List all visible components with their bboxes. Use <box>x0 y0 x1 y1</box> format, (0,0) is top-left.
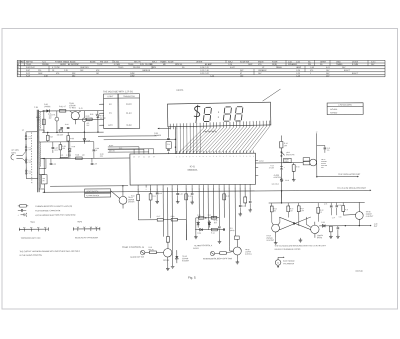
switch box SW-1 section <box>42 175 47 184</box>
svg-text:NPN: NPN <box>152 67 157 69</box>
svg-text:TRANS: TRANS <box>336 63 343 66</box>
svg-text:B4086: B4086 <box>90 61 95 63</box>
svg-text:SIL: SIL <box>308 61 311 63</box>
svg-text:LAMP: LAMP <box>296 66 302 69</box>
resistor R-31 snooze <box>215 251 234 254</box>
svg-text:4.7 1/2W: 4.7 1/2W <box>52 67 60 69</box>
ground <box>191 200 193 202</box>
digit 3 <box>223 107 231 121</box>
svg-text:TR-06: TR-06 <box>321 159 325 161</box>
ground <box>293 177 295 179</box>
transformer T-01 power <box>34 107 42 192</box>
svg-text:TO-92: TO-92 <box>97 64 102 66</box>
svg-text:TRANSISTOR: TRANSISTOR <box>123 95 135 98</box>
wire pin4 drop <box>162 187 164 236</box>
svg-text:(MUS/OFF): (MUS/OFF) <box>286 154 295 156</box>
capacitor C-27 <box>337 226 340 234</box>
diode D-05 <box>319 222 345 228</box>
amplifier legend box <box>327 103 363 115</box>
svg-text:C-08: C-08 <box>95 148 99 150</box>
svg-text:RD7106: RD7106 <box>356 271 363 273</box>
svg-text:220: 220 <box>38 70 41 72</box>
svg-text:LIGHT SWITCH: LIGHT SWITCH <box>86 191 99 193</box>
svg-text:SW-2: SW-2 <box>228 61 233 63</box>
svg-text:L-01: L-01 <box>60 155 63 157</box>
svg-text:R-09: R-09 <box>75 155 79 157</box>
switch snooze circle <box>210 251 214 255</box>
svg-text:AC 120V: AC 120V <box>11 149 19 152</box>
display pins <box>170 120 271 129</box>
wire secondary tap 6 <box>42 173 45 175</box>
svg-text:D-01: D-01 <box>288 61 292 63</box>
diode D-01 rectifier <box>44 104 50 113</box>
svg-text:100: 100 <box>240 75 243 77</box>
resistor R-27 <box>297 203 300 226</box>
AC plug 120V <box>11 149 26 162</box>
svg-text:POWER: POWER <box>154 135 162 137</box>
wire <box>43 184 45 192</box>
svg-text:MN6063A: MN6063A <box>188 169 198 172</box>
svg-text:+: + <box>284 167 285 169</box>
svg-text:D-04: D-04 <box>86 140 90 142</box>
svg-text:C-04: C-04 <box>65 124 69 126</box>
svg-text:470: 470 <box>87 123 90 125</box>
svg-text:ELECT: ELECT <box>344 70 351 72</box>
small box R-10 <box>59 130 62 133</box>
svg-text:SW-3 BUZ: SW-3 BUZ <box>272 184 279 186</box>
wire pin5 drop <box>167 187 169 236</box>
resistor R-12 <box>149 194 156 200</box>
transistor TR-05 <box>229 239 252 260</box>
label bus B1 <box>109 145 123 152</box>
arrow to VCM <box>337 187 371 192</box>
ground <box>167 266 169 268</box>
svg-text:14: 14 <box>22 130 24 132</box>
wire pin11 drop <box>203 187 205 218</box>
svg-text:WZ-090: WZ-090 <box>100 118 106 120</box>
svg-text:4 OHM: 4 OHM <box>114 64 120 66</box>
svg-text:D-03: D-03 <box>100 115 104 117</box>
node <box>43 158 44 159</box>
wire <box>70 141 94 143</box>
ground <box>156 199 158 201</box>
svg-text:ELECT: ELECT <box>352 73 359 75</box>
capacitor C-19 <box>239 205 246 211</box>
svg-text:26: 26 <box>143 156 145 158</box>
svg-text:MUTING: MUTING <box>321 165 328 167</box>
svg-text:AIO-500: AIO-500 <box>330 108 337 111</box>
svg-text:UNLESS OTHERWISE STATED: UNLESS OTHERWISE STATED <box>274 248 301 251</box>
svg-text:2SC458: 2SC458 <box>163 260 169 262</box>
svg-text:ALM OUT: ALM OUT <box>366 215 374 218</box>
svg-text:R-05: R-05 <box>90 114 94 116</box>
callout line <box>263 89 281 101</box>
wire pin16 drop <box>228 187 230 247</box>
node <box>281 190 282 191</box>
capacitor C-16 <box>176 193 183 199</box>
wire <box>60 141 69 143</box>
wire <box>111 191 120 199</box>
svg-text:2SB186: 2SB186 <box>42 64 49 66</box>
svg-text:R-17: R-17 <box>157 216 161 218</box>
capacitor C-08 <box>93 142 100 159</box>
capacitor C-05 <box>50 158 57 165</box>
wire amp top rail <box>269 201 365 204</box>
svg-text:TR-01: TR-01 <box>26 64 31 66</box>
svg-text:AIO-540: AIO-540 <box>330 111 337 114</box>
svg-text:R-22: R-22 <box>211 233 215 235</box>
wire <box>167 242 169 248</box>
svg-text:R-21: R-21 <box>208 215 211 217</box>
svg-text:6: 6 <box>246 121 247 123</box>
svg-text:470: 470 <box>310 70 313 72</box>
svg-text:R-25: R-25 <box>273 208 276 210</box>
svg-text:C-14: C-14 <box>167 144 170 146</box>
svg-text:FIP4C5: FIP4C5 <box>177 90 185 92</box>
wire bus to IC pin 25 <box>108 147 139 149</box>
transistor TR-08 alarm amp <box>306 222 323 240</box>
transistor TR-04 vertical <box>197 220 200 227</box>
svg-text:D-06: D-06 <box>197 233 201 235</box>
svg-text:Fig. 5: Fig. 5 <box>188 276 196 280</box>
wire rail alarm1 <box>196 217 219 219</box>
ground <box>218 239 220 241</box>
switch circle snooze <box>130 250 145 258</box>
digit 4 <box>235 107 243 121</box>
wire <box>99 103 103 105</box>
resistor R-28 <box>317 203 320 222</box>
wire branch <box>317 144 325 146</box>
svg-text:C-19: C-19 <box>242 206 246 208</box>
wire <box>244 203 246 207</box>
wire <box>137 201 139 219</box>
svg-text:DIODE: DIODE <box>352 61 359 63</box>
label values amp <box>273 209 348 219</box>
wire pin6 drop <box>171 187 173 250</box>
svg-text:60Hz IN: 60Hz IN <box>109 150 116 152</box>
svg-text:SW-B: SW-B <box>285 180 289 182</box>
resistor R-22 <box>211 228 217 234</box>
svg-text:C-01: C-01 <box>52 114 56 116</box>
wire <box>185 220 187 240</box>
svg-text:470: 470 <box>37 119 40 121</box>
wire secondary tap 7 <box>42 189 45 192</box>
node <box>44 192 45 193</box>
transistor TR-09 output <box>343 202 373 225</box>
zener diode D-03 <box>96 111 103 133</box>
wire vertical audio <box>316 133 318 176</box>
display DISP-01 fluorescent <box>167 102 270 127</box>
transistor TR-01 regulator <box>69 103 81 124</box>
svg-text:C-20: C-20 <box>296 70 300 72</box>
digit 2 <box>203 107 211 121</box>
svg-text:R-06: R-06 <box>70 138 74 140</box>
wire rail alarm2 <box>195 229 225 231</box>
transistor TR-02 driver <box>119 186 135 209</box>
svg-text:SPEAKER: SPEAKER <box>288 63 298 66</box>
wire rail drive <box>50 185 128 187</box>
svg-text:R-28: R-28 <box>320 210 323 212</box>
svg-text:D-02: D-02 <box>296 61 300 63</box>
wire <box>137 218 139 220</box>
resistor R-25 <box>270 203 273 222</box>
switch SW-2 contact <box>281 151 295 156</box>
svg-text:R-29: R-29 <box>345 209 348 211</box>
capacitor C-23 electrolytic <box>269 165 285 169</box>
svg-text:27: 27 <box>138 156 140 158</box>
display to IC wires <box>177 126 270 153</box>
svg-text:PM: PM <box>308 64 311 66</box>
svg-text:28: 28 <box>133 156 135 158</box>
switch SW-1 diagram <box>19 222 48 240</box>
ground <box>239 212 241 214</box>
wire pin20 drop <box>249 187 251 201</box>
svg-text:IC-01: IC-01 <box>190 166 196 168</box>
svg-text:C-25: C-25 <box>338 205 341 207</box>
capacitor C-24 <box>324 203 333 216</box>
svg-text:CARBON RESISTOR 1/4 WATTS ±10: CARBON RESISTOR 1/4 WATTS ±10% (Ω) <box>35 205 72 208</box>
node <box>316 176 317 177</box>
svg-text:AF AMP: AF AMP <box>205 63 213 66</box>
ground <box>299 238 301 240</box>
matrix label boxes <box>85 189 111 197</box>
wire rail L <box>41 157 130 160</box>
svg-text:8.7V: 8.7V <box>108 125 113 127</box>
radio control box <box>284 158 291 163</box>
wire cross coupling <box>279 217 311 230</box>
wire rail B2 <box>74 118 104 120</box>
svg-text:11.4V: 11.4V <box>126 113 132 115</box>
wire hline to C-14 <box>98 135 157 137</box>
switch alarm off <box>280 179 289 182</box>
label D-02 POWER <box>154 133 162 137</box>
mute control boxes <box>303 158 310 165</box>
resistor R-26 <box>287 203 290 218</box>
svg-text:R-11: R-11 <box>131 195 134 197</box>
svg-text:SW-2: SW-2 <box>286 152 290 154</box>
legend electrolytic symbol <box>17 213 76 217</box>
resistor R-09 <box>75 155 82 160</box>
svg-text:12: 12 <box>316 131 318 133</box>
svg-text:150: 150 <box>284 145 287 147</box>
arrow to display <box>158 128 171 130</box>
label C-17 50V <box>214 220 218 224</box>
resistor R-13 <box>166 237 169 243</box>
wire rail mid <box>42 131 103 133</box>
svg-text:C-26: C-26 <box>296 75 300 77</box>
svg-text:1: 1 <box>310 73 311 75</box>
legend resistor symbol <box>18 204 73 208</box>
note switch positions <box>19 250 79 257</box>
svg-text:D-05: D-05 <box>321 222 325 224</box>
svg-text:R-W: R-W <box>140 64 144 66</box>
capacitor C-15 <box>156 193 163 199</box>
wire <box>108 148 134 150</box>
IC top pins <box>133 148 254 158</box>
svg-text:47K: 47K <box>273 210 276 212</box>
node <box>205 217 206 218</box>
svg-text:SW-2: SW-2 <box>77 221 82 223</box>
svg-text:C-01: C-01 <box>48 114 52 116</box>
label R-05 <box>90 114 98 116</box>
resistor R-20 <box>198 217 204 220</box>
svg-text:100: 100 <box>49 116 52 118</box>
svg-text:10.2V: 10.2V <box>126 104 132 106</box>
svg-text:MUSIC/AUTO OFF/BUZZER: MUSIC/AUTO OFF/BUZZER <box>75 236 99 239</box>
wire pin13 drop <box>213 187 215 218</box>
label R-20 values <box>197 215 211 217</box>
svg-text:D-0: D-0 <box>28 136 31 138</box>
svg-text:C-09: C-09 <box>100 154 104 156</box>
svg-text:1N60: 1N60 <box>336 61 341 63</box>
svg-text:TIME/RADIO/AUTO OFF: TIME/RADIO/AUTO OFF <box>21 237 42 240</box>
note voltages measured <box>274 244 326 251</box>
svg-text:R-24: R-24 <box>284 143 288 145</box>
svg-text:ALM B: ALM B <box>193 247 199 250</box>
svg-text:10K: 10K <box>290 210 293 212</box>
svg-text:R-25: R-25 <box>296 166 299 168</box>
svg-text:0.047: 0.047 <box>230 67 235 69</box>
wire <box>281 191 283 203</box>
svg-text:1K: 1K <box>320 212 322 214</box>
dashed shield line <box>31 133 33 184</box>
wire <box>67 132 69 135</box>
svg-text:2SC458: 2SC458 <box>133 67 140 69</box>
ground <box>337 234 339 236</box>
svg-text:R-19: R-19 <box>148 247 152 249</box>
svg-text:C-21 C-22: C-21 C-22 <box>200 73 209 75</box>
node <box>359 225 360 226</box>
svg-text:A FM AM AMPLI: A FM AM AMPLI <box>338 103 352 106</box>
svg-text:220: 220 <box>82 155 85 157</box>
svg-text:680: 680 <box>72 75 75 77</box>
ground <box>195 235 197 237</box>
svg-text:T-01: T-01 <box>42 61 46 63</box>
svg-text:D-0: D-0 <box>28 147 31 149</box>
svg-text:CARBON: CARBON <box>142 69 151 72</box>
svg-text:SLIDE SW: SLIDE SW <box>240 61 249 63</box>
svg-text:C-15: C-15 <box>159 193 163 195</box>
capacitor C-07 <box>52 142 59 153</box>
svg-text:±(V) ALUMINUM ELECTROLYTIC CAP: ±(V) ALUMINUM ELECTROLYTIC CAPACITOR <box>35 214 76 217</box>
svg-text:TR-06: TR-06 <box>128 64 133 66</box>
ground <box>330 234 332 236</box>
resistor R-30 <box>329 226 332 234</box>
svg-text:SW-1: SW-1 <box>30 222 35 224</box>
svg-text:1M: 1M <box>96 73 99 75</box>
svg-text:REF NO: REF NO <box>26 61 34 63</box>
resistor R-04 <box>86 116 93 121</box>
svg-text:ALARM CONTROL A: ALARM CONTROL A <box>194 244 213 247</box>
svg-text:100K: 100K <box>38 73 43 75</box>
wire <box>145 251 149 253</box>
wire pin19 drop <box>244 187 246 197</box>
wire vertical feed <box>280 148 282 203</box>
wire pin15 drop <box>223 187 225 218</box>
parts table <box>17 60 385 77</box>
wire pin2 drop <box>150 188 152 194</box>
label alarm control <box>274 174 282 179</box>
wire pin8 drop <box>185 187 187 240</box>
diode D-05b <box>69 142 76 159</box>
ground <box>172 264 174 266</box>
svg-text:1/4W: 1/4W <box>130 75 135 77</box>
svg-text:R-07: R-07 <box>50 136 54 138</box>
wire rail +B <box>42 110 103 112</box>
svg-text:GERM: GERM <box>320 61 326 63</box>
wire long rail to regulator <box>43 190 370 192</box>
svg-text:THE VOLTAGES ARE MEASURED WITH: THE VOLTAGES ARE MEASURED WITH THE V.O.M… <box>274 244 326 247</box>
svg-text:OUT: OUT <box>374 226 378 228</box>
svg-text:R-19: R-19 <box>26 75 30 77</box>
svg-text:ALARM SWITCH: ALARM SWITCH <box>86 194 100 197</box>
wire pin10 drop <box>198 187 200 218</box>
label C-02 values <box>87 123 91 127</box>
node <box>281 202 282 203</box>
wire pin7 drop <box>177 187 179 192</box>
svg-text:C-15 C-16: C-15 C-16 <box>200 70 209 72</box>
svg-text:8 OHM: 8 OHM <box>352 64 358 66</box>
node <box>56 132 57 133</box>
svg-text:C-24: C-24 <box>332 217 335 219</box>
wire pin17 drop <box>234 187 236 236</box>
diode D-06 <box>197 228 202 234</box>
svg-text:TR-05: TR-05 <box>118 67 123 69</box>
svg-text:V-3.5: V-3.5 <box>371 61 375 63</box>
svg-text:R-07: R-07 <box>26 70 30 72</box>
IC side pins <box>255 161 264 176</box>
wire faint rail <box>104 138 176 140</box>
svg-text:D-0: D-0 <box>29 160 32 162</box>
svg-text:POWER TRANS: POWER TRANS <box>55 60 70 63</box>
svg-text:SEC 9V: SEC 9V <box>134 61 141 63</box>
resistor R-23 <box>234 236 239 239</box>
svg-text:0.02: 0.02 <box>339 216 342 218</box>
svg-text:CONTL: CONTL <box>284 161 289 163</box>
resistor R-25b <box>292 163 300 178</box>
wire <box>48 141 60 143</box>
svg-text:2SC458: 2SC458 <box>245 251 251 253</box>
wire <box>171 250 173 264</box>
svg-text:LEVER: LEVER <box>196 61 203 63</box>
svg-text:TO IF REGULATOR PART: TO IF REGULATOR PART <box>338 173 361 176</box>
resistor R-14 <box>185 194 192 200</box>
wire pin12 drop <box>207 187 209 218</box>
svg-text:100K: 100K <box>301 210 305 212</box>
wire rail from IC <box>255 162 303 164</box>
svg-text:NPN SIL: NPN SIL <box>175 64 182 66</box>
node <box>47 132 48 133</box>
svg-text:R-01 4.7: R-01 4.7 <box>59 106 66 108</box>
svg-text:B4006: B4006 <box>70 61 75 63</box>
ground <box>249 208 251 210</box>
svg-text:OHM 10%: OHM 10% <box>80 67 89 69</box>
IC IC-01 clock chip <box>130 153 256 185</box>
svg-text:SW-1: SW-1 <box>152 61 157 63</box>
wire pin1 drop <box>137 188 139 195</box>
svg-text:VOLTMETER: VOLTMETER <box>283 263 295 265</box>
ground <box>236 260 238 262</box>
svg-text:PULSE: PULSE <box>148 249 153 251</box>
transistor TR-06 audio muting <box>310 159 328 169</box>
svg-text:D-05: D-05 <box>72 146 76 148</box>
svg-text:R-04: R-04 <box>86 116 90 118</box>
svg-text:R-20: R-20 <box>197 215 200 217</box>
diode D-07 <box>175 250 189 263</box>
resistor R-01 <box>59 106 66 112</box>
svg-text:SIL: SIL <box>320 64 323 66</box>
wire pin14 drop <box>218 187 220 226</box>
